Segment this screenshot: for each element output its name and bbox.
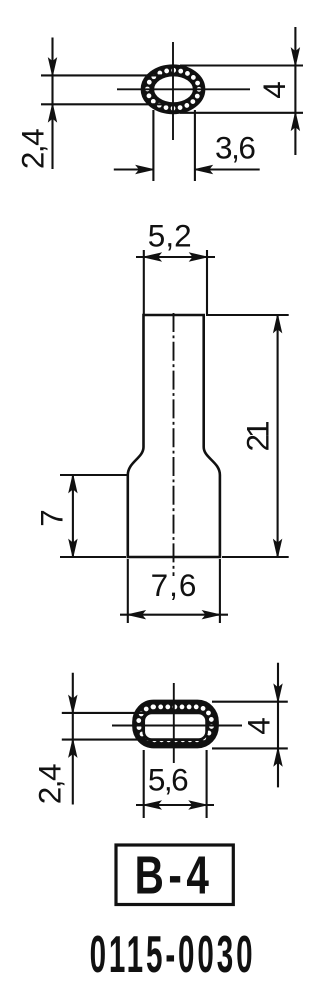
dimension 21 arrow down bbox=[274, 540, 282, 557]
dimension 2,4 extension line bottom bbox=[62, 739, 150, 741]
svg-text:5,2: 5,2 bbox=[148, 218, 192, 254]
dimension 3,6 dimension line right part bbox=[195, 168, 260, 170]
svg-text:21: 21 bbox=[240, 422, 276, 452]
dimension 2,4 extension line top bbox=[62, 712, 150, 714]
dimension 5,6 (bottom section): extension line left bbox=[143, 750, 145, 818]
bottom section: horizontal centerline bbox=[112, 725, 242, 727]
top section: inner ellipse bbox=[153, 75, 194, 104]
dimension 7,6 arrow right bbox=[203, 611, 220, 619]
dimension 2,4 arrow down bbox=[49, 58, 57, 75]
svg-text:7: 7 bbox=[34, 509, 70, 527]
svg-text:4: 4 bbox=[241, 717, 277, 735]
top section: ring inner hole bbox=[153, 75, 194, 104]
dimension 2,4 arrow up bbox=[69, 740, 77, 757]
dimension 3,6 arrow right bbox=[136, 166, 153, 174]
bottom section: ring inner hole bbox=[144, 713, 207, 740]
dimension 7 arrow down bbox=[69, 540, 77, 557]
dimension 7,6 extension line right bbox=[219, 559, 221, 623]
bottom section: ring wall (dark) bbox=[134, 701, 218, 747]
dimension 3,6 extension line right bbox=[194, 110, 196, 181]
svg-text:2,4: 2,4 bbox=[32, 764, 68, 804]
svg-text:4: 4 bbox=[256, 81, 292, 99]
dimension 5,6 arrow left bbox=[144, 801, 161, 809]
dimension 4 arrow down bbox=[292, 49, 300, 66]
dimension 7 dimension line bbox=[72, 475, 74, 557]
dimension 7,6 (profile bottom): extension line left bbox=[127, 559, 129, 623]
dimension 4 extension line top bbox=[180, 64, 303, 66]
svg-text:7,6: 7,6 bbox=[151, 567, 198, 603]
dimension 7 arrow up bbox=[69, 475, 77, 492]
dimension 4 extension line top bbox=[212, 701, 288, 703]
dimension 2,4 extension line top bbox=[41, 74, 170, 76]
profile outline of cap B-4 bbox=[128, 315, 220, 557]
dimension 5,6 arrow right bbox=[190, 801, 207, 809]
dimension 2,4 (bottom section, left): dimension line bbox=[72, 673, 74, 805]
top section: horizontal centerline bbox=[117, 88, 250, 90]
svg-text:3,6: 3,6 bbox=[215, 130, 255, 166]
dimension 7 extension line bottom bbox=[60, 556, 126, 558]
top section: outer ellipse bbox=[142, 66, 204, 113]
dimension 5,2 extension line right bbox=[206, 250, 208, 314]
dimension 2,4 arrow up bbox=[49, 104, 57, 121]
dimension 3,6 dimension line left part bbox=[114, 168, 154, 170]
label box B-4 bbox=[116, 845, 233, 905]
dimension 5,6 extension line right bbox=[206, 750, 208, 818]
dimension 3,6 arrow left bbox=[195, 166, 212, 174]
svg-text:0115-0030: 0115-0030 bbox=[90, 925, 256, 983]
dimension 5,2 arrow left bbox=[144, 253, 161, 261]
top section: vertical centerline bbox=[172, 42, 174, 140]
dimension 21 (profile right): extension line top bbox=[206, 314, 289, 316]
top section: ring wall (dark) bbox=[142, 66, 204, 113]
bottom section: vertical centerline bbox=[173, 683, 175, 763]
dimension 4 extension line bottom bbox=[212, 747, 288, 749]
profile vertical centerline (dash-dot) bbox=[173, 313, 175, 576]
dimension 2,4 (top section, left): dimension line bbox=[51, 38, 53, 170]
svg-text:5,6: 5,6 bbox=[148, 762, 188, 798]
dimension 5,2 (profile top): extension line left bbox=[143, 250, 145, 314]
dimension 5,2 arrow right bbox=[190, 253, 207, 261]
bottom section: outer stadium outline bbox=[134, 701, 218, 747]
dimension 2,4 arrow down bbox=[69, 696, 77, 713]
dimension 21 dimension line bbox=[277, 315, 279, 557]
dimension 3,6 (top section, bottom): extension line left bbox=[152, 110, 154, 181]
dimension 4 (bottom section, right): dimension line bbox=[277, 663, 279, 788]
bottom section: white bead chain in wall bbox=[139, 707, 212, 740]
dimension 21 arrow up bbox=[274, 315, 282, 332]
dimension 21 extension line bottom bbox=[222, 556, 289, 558]
dimension 4 arrow up bbox=[292, 113, 300, 130]
bottom section: inner rounded rectangle outline bbox=[144, 713, 207, 740]
dimension 7,6 arrow left bbox=[128, 611, 145, 619]
dimension 4 arrow down bbox=[274, 685, 282, 702]
dimension 5,2 dimension line bbox=[136, 256, 215, 258]
svg-text:B-4: B-4 bbox=[135, 846, 214, 906]
dimension 5,6 dimension line bbox=[136, 804, 214, 806]
svg-text:2,4: 2,4 bbox=[15, 129, 51, 169]
dimension 7 (profile left): extension line top bbox=[60, 474, 128, 476]
dimension 7,6 dimension line bbox=[120, 614, 228, 616]
dimension 4 (top section, right): dimension line bbox=[294, 27, 296, 155]
dimension 4 extension line bottom bbox=[180, 112, 303, 114]
dimension 4 arrow up bbox=[274, 748, 282, 765]
dimension 2,4 extension line bottom bbox=[41, 103, 170, 105]
top section: white bead chain in wall bbox=[147, 70, 199, 108]
